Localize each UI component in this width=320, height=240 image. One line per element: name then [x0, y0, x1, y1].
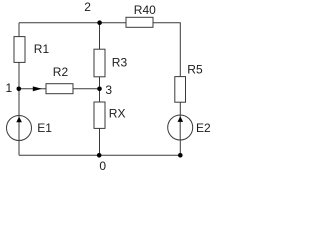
source E2 circle — [168, 115, 193, 140]
svg-text:R1: R1 — [34, 42, 50, 56]
svg-text:2: 2 — [84, 0, 91, 14]
svg-text:R2: R2 — [53, 65, 69, 79]
wire right branch vertical — [179, 23, 181, 156]
svg-text:R5: R5 — [187, 63, 203, 77]
node 2 junction dot — [97, 20, 102, 25]
node 0 junction dot — [97, 153, 102, 158]
svg-text:E1: E1 — [37, 121, 52, 135]
svg-text:1: 1 — [6, 81, 13, 95]
current direction arrow on wire 1-3 — [33, 86, 42, 91]
resistor R5 — [175, 77, 186, 103]
svg-text:RX: RX — [109, 106, 126, 120]
svg-text:0: 0 — [99, 159, 106, 173]
wire top horizontal node2 — [19, 22, 181, 24]
svg-text:3: 3 — [105, 83, 112, 97]
junction dot bottom right — [178, 153, 183, 158]
source E2 arrow shaft — [179, 115, 181, 140]
node 3 junction dot — [97, 87, 102, 92]
source E1 arrow shaft — [18, 116, 20, 141]
svg-text:E2: E2 — [196, 121, 211, 135]
resistor R2 — [46, 84, 73, 94]
node 1 junction dot — [17, 87, 22, 92]
resistor R1 — [14, 37, 25, 63]
wire middle horizontal node1 to node3 — [19, 88, 100, 90]
source E2 arrowhead — [178, 116, 184, 122]
wire bottom horizontal node0 — [19, 154, 180, 156]
wire middle branch vertical — [99, 23, 101, 156]
source E1 arrowhead — [16, 117, 22, 123]
wire left branch vertical — [18, 23, 20, 156]
resistor R3 — [94, 49, 105, 77]
svg-text:R3: R3 — [112, 55, 128, 69]
source E1 circle — [7, 116, 32, 141]
resistor R40 — [126, 17, 153, 27]
resistor RX — [94, 102, 105, 128]
svg-text:R40: R40 — [134, 3, 156, 17]
